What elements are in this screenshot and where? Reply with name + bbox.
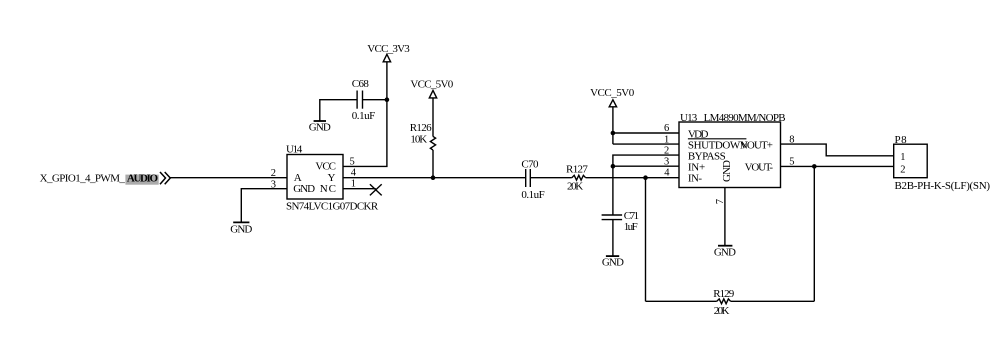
svg-text:1: 1 <box>351 179 356 190</box>
svg-text:8: 8 <box>789 134 794 145</box>
svg-text:IN-: IN- <box>688 173 702 185</box>
svg-text:X_GPIO1_4_PWM_: X_GPIO1_4_PWM_ <box>40 173 126 185</box>
svg-text:20K: 20K <box>714 305 730 317</box>
svg-text:6: 6 <box>664 123 669 134</box>
svg-text:A: A <box>294 172 302 184</box>
svg-text:4: 4 <box>664 168 670 179</box>
svg-text:GND: GND <box>602 257 624 269</box>
svg-text:GND: GND <box>230 223 252 235</box>
svg-text:NC: NC <box>320 183 336 195</box>
svg-text:VCC_5V0: VCC_5V0 <box>410 78 453 90</box>
svg-text:R129: R129 <box>713 288 735 300</box>
svg-text:2: 2 <box>664 145 669 156</box>
svg-text:C68: C68 <box>352 78 370 90</box>
svg-text:5: 5 <box>350 156 355 167</box>
svg-text:VCC: VCC <box>315 161 336 173</box>
svg-text:Y: Y <box>328 172 336 184</box>
svg-text:R126: R126 <box>410 122 432 134</box>
svg-text:2: 2 <box>900 164 905 175</box>
svg-text:VCC_3V3: VCC_3V3 <box>367 43 410 55</box>
svg-text:P8: P8 <box>895 134 908 146</box>
svg-text:B2B-PH-K-S(LF)(SN): B2B-PH-K-S(LF)(SN) <box>895 180 991 192</box>
svg-text:1uF: 1uF <box>624 221 638 233</box>
svg-text:VOUT+: VOUT+ <box>740 140 773 152</box>
svg-text:LM4890MM/NOPB: LM4890MM/NOPB <box>704 112 786 124</box>
svg-text:U14: U14 <box>286 143 303 155</box>
svg-text:3: 3 <box>664 156 669 167</box>
svg-text:R127: R127 <box>566 163 588 175</box>
svg-text:AUDIO: AUDIO <box>127 173 159 185</box>
svg-text:7: 7 <box>715 199 726 204</box>
svg-text:20K: 20K <box>567 181 583 193</box>
svg-text:U13: U13 <box>680 112 698 124</box>
svg-text:SN74LVC1G07DCKR: SN74LVC1G07DCKR <box>286 201 379 213</box>
svg-text:GND: GND <box>293 183 315 195</box>
svg-text:10K: 10K <box>410 134 427 146</box>
svg-text:4: 4 <box>351 167 357 178</box>
svg-text:C70: C70 <box>521 159 539 171</box>
svg-text:GND: GND <box>309 122 331 134</box>
svg-text:0.1uF: 0.1uF <box>352 110 375 122</box>
svg-text:GND: GND <box>714 247 736 259</box>
svg-text:GND: GND <box>721 160 733 182</box>
svg-text:VCC_5V0: VCC_5V0 <box>590 87 635 99</box>
svg-text:0.1uF: 0.1uF <box>521 189 544 201</box>
svg-text:2: 2 <box>271 168 276 179</box>
svg-text:1: 1 <box>664 134 669 145</box>
svg-text:VOUT-: VOUT- <box>745 162 774 174</box>
svg-text:1: 1 <box>900 152 905 163</box>
svg-text:5: 5 <box>789 157 794 168</box>
svg-text:3: 3 <box>271 179 276 190</box>
svg-text:C71: C71 <box>624 210 639 222</box>
